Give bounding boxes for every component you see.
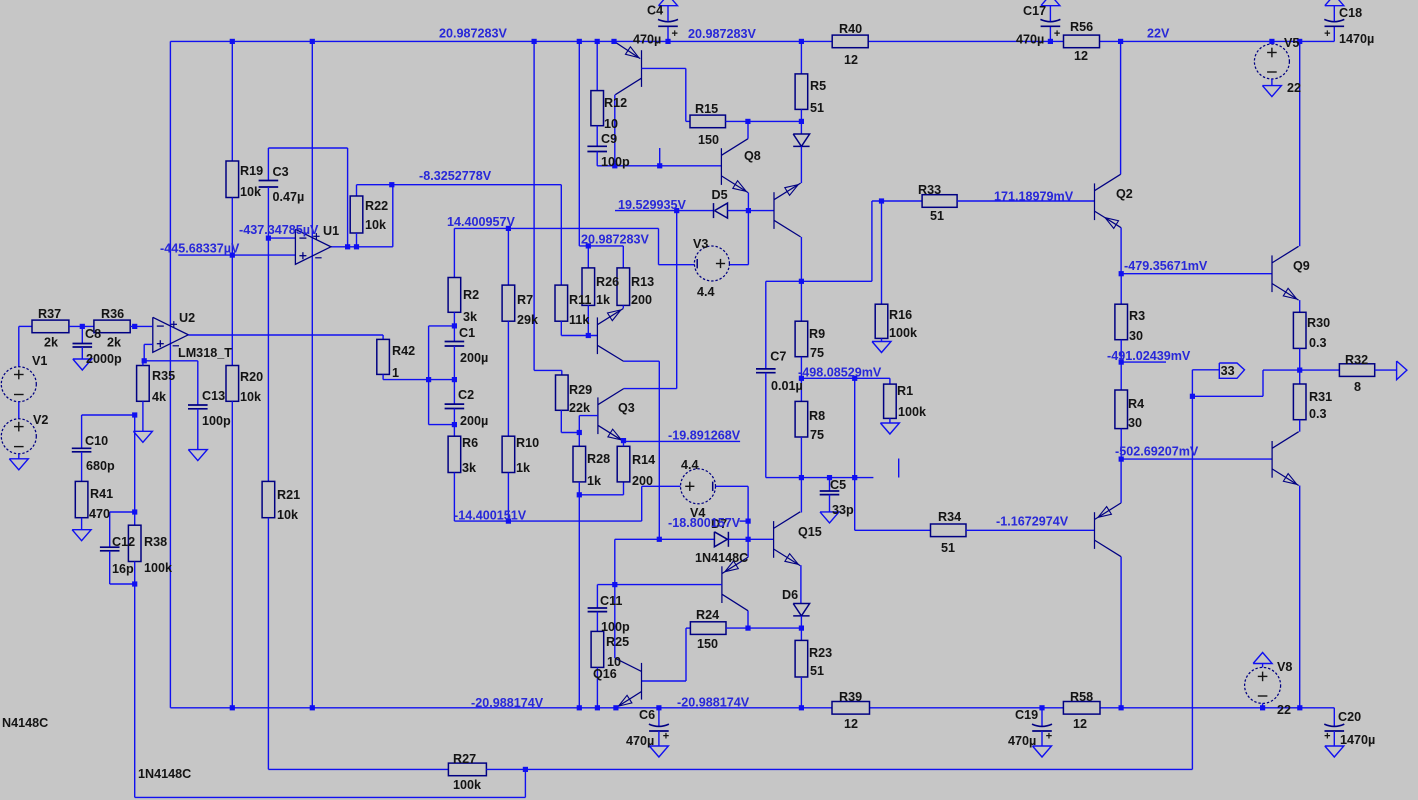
svg-text:D5: D5	[712, 188, 728, 202]
svg-text:16p: 16p	[112, 562, 134, 576]
svg-text:R16: R16	[889, 308, 912, 322]
svg-text:R20: R20	[240, 370, 263, 384]
svg-text:R19: R19	[240, 164, 263, 178]
svg-text:R5: R5	[810, 79, 826, 93]
svg-text:C10: C10	[85, 434, 108, 448]
svg-text:V3: V3	[693, 237, 708, 251]
svg-text:-479.35671mV: -479.35671mV	[1124, 259, 1208, 273]
svg-text:150: 150	[697, 637, 718, 651]
svg-text:R30: R30	[1307, 316, 1330, 330]
svg-text:V8: V8	[1277, 660, 1292, 674]
svg-text:R28: R28	[587, 452, 610, 466]
svg-text:200: 200	[631, 293, 652, 307]
svg-text:20.987283V: 20.987283V	[581, 233, 650, 247]
svg-text:-20.988174V: -20.988174V	[677, 695, 750, 709]
svg-text:+: +	[1046, 730, 1052, 742]
svg-text:12: 12	[1074, 49, 1088, 63]
svg-text:-491.02439mV: -491.02439mV	[1107, 349, 1191, 363]
svg-text:2000p: 2000p	[86, 352, 122, 366]
svg-text:R24: R24	[696, 608, 719, 622]
svg-text:C7: C7	[770, 349, 786, 363]
svg-text:51: 51	[930, 209, 944, 223]
svg-text:100k: 100k	[144, 561, 173, 575]
svg-text:100k: 100k	[889, 326, 918, 340]
svg-text:0.01µ: 0.01µ	[771, 379, 803, 393]
svg-text:R15: R15	[695, 102, 718, 116]
svg-text:+: +	[1324, 28, 1330, 40]
svg-text:4k: 4k	[152, 390, 167, 404]
svg-text:R23: R23	[809, 646, 832, 660]
svg-text:22: 22	[1277, 703, 1291, 717]
svg-text:1k: 1k	[596, 293, 611, 307]
svg-text:680p: 680p	[86, 459, 115, 473]
svg-text:Q16: Q16	[593, 667, 617, 681]
svg-text:2k: 2k	[107, 336, 122, 350]
svg-text:LM318_T: LM318_T	[178, 346, 232, 360]
svg-text:V1: V1	[32, 354, 47, 368]
svg-text:R33: R33	[918, 183, 941, 197]
svg-text:C6: C6	[639, 708, 655, 722]
svg-text:+: +	[1324, 730, 1330, 742]
svg-text:R41: R41	[90, 487, 113, 501]
svg-text:R2: R2	[463, 288, 479, 302]
svg-text:C2: C2	[458, 388, 474, 402]
svg-text:R1: R1	[897, 384, 913, 398]
svg-text:20.987283V: 20.987283V	[688, 27, 757, 41]
svg-text:Q15: Q15	[798, 525, 822, 539]
svg-text:R4: R4	[1128, 397, 1144, 411]
svg-text:20.987283V: 20.987283V	[439, 27, 508, 41]
svg-text:R6: R6	[462, 436, 478, 450]
svg-text:R34: R34	[938, 510, 961, 524]
svg-text:-19.891268V: -19.891268V	[668, 429, 741, 443]
svg-text:-502.69207mV: -502.69207mV	[1115, 445, 1199, 459]
svg-text:C5: C5	[830, 478, 846, 492]
svg-text:1k: 1k	[587, 474, 602, 488]
svg-text:75: 75	[810, 428, 824, 442]
svg-text:V2: V2	[33, 413, 48, 427]
svg-text:8: 8	[1354, 380, 1361, 394]
svg-text:2k: 2k	[44, 336, 59, 350]
svg-text:29k: 29k	[517, 313, 539, 327]
svg-text:51: 51	[810, 664, 824, 678]
svg-text:R12: R12	[604, 96, 627, 110]
svg-text:R42: R42	[392, 344, 415, 358]
svg-text:10k: 10k	[240, 390, 262, 404]
svg-text:100p: 100p	[601, 620, 630, 634]
svg-text:R21: R21	[277, 488, 300, 502]
svg-text:3k: 3k	[463, 310, 478, 324]
svg-text:R14: R14	[632, 453, 655, 467]
svg-text:+: +	[1054, 28, 1060, 40]
svg-text:30: 30	[1129, 329, 1143, 343]
svg-text:-437.34785µV: -437.34785µV	[239, 223, 319, 237]
svg-text:R36: R36	[101, 307, 124, 321]
svg-text:U2: U2	[179, 311, 195, 325]
svg-text:33: 33	[1221, 364, 1235, 378]
svg-text:R37: R37	[38, 307, 61, 321]
svg-text:C9: C9	[601, 132, 617, 146]
svg-text:Q8: Q8	[744, 149, 761, 163]
svg-text:R13: R13	[631, 275, 654, 289]
svg-text:R39: R39	[839, 690, 862, 704]
svg-text:1: 1	[392, 366, 399, 380]
svg-text:4.4: 4.4	[697, 285, 715, 299]
svg-text:470µ: 470µ	[626, 734, 654, 748]
svg-text:51: 51	[810, 101, 824, 115]
svg-text:1N4148C: 1N4148C	[695, 551, 748, 565]
svg-text:10k: 10k	[365, 218, 387, 232]
svg-text:0.3: 0.3	[1309, 336, 1327, 350]
svg-text:V5: V5	[1284, 36, 1299, 50]
svg-text:75: 75	[810, 346, 824, 360]
svg-text:30: 30	[1128, 416, 1142, 430]
svg-text:C4: C4	[647, 4, 663, 18]
svg-text:R58: R58	[1070, 690, 1093, 704]
svg-text:0.3: 0.3	[1309, 407, 1327, 421]
svg-text:R29: R29	[569, 383, 592, 397]
svg-text:-20.988174V: -20.988174V	[471, 696, 544, 710]
svg-text:4.4: 4.4	[681, 458, 699, 472]
svg-text:171.18979mV: 171.18979mV	[994, 189, 1074, 203]
svg-text:100p: 100p	[202, 414, 231, 428]
svg-text:C1: C1	[459, 326, 475, 340]
svg-text:R38: R38	[144, 535, 167, 549]
svg-text:+: +	[663, 730, 669, 742]
svg-text:14.400957V: 14.400957V	[447, 215, 516, 229]
svg-text:Q3: Q3	[618, 401, 635, 415]
svg-text:10: 10	[604, 117, 618, 131]
svg-text:C8: C8	[85, 327, 101, 341]
svg-text:C17: C17	[1023, 4, 1046, 18]
svg-text:C20: C20	[1338, 710, 1361, 724]
svg-text:3k: 3k	[462, 461, 477, 475]
svg-text:470µ: 470µ	[1008, 734, 1036, 748]
svg-text:R3: R3	[1129, 309, 1145, 323]
svg-text:22V: 22V	[1147, 27, 1170, 41]
svg-text:+: +	[672, 28, 678, 40]
svg-text:11k: 11k	[569, 313, 590, 327]
svg-text:U1: U1	[323, 224, 339, 238]
svg-text:-498.08529mV: -498.08529mV	[798, 366, 882, 380]
svg-text:10k: 10k	[240, 185, 262, 199]
svg-text:Q2: Q2	[1116, 187, 1133, 201]
svg-text:R25: R25	[606, 635, 629, 649]
svg-text:470µ: 470µ	[633, 33, 661, 47]
svg-text:1k: 1k	[516, 461, 531, 475]
svg-text:0.47µ: 0.47µ	[273, 190, 305, 204]
svg-text:C19: C19	[1015, 708, 1038, 722]
svg-text:R11: R11	[569, 293, 591, 307]
svg-text:12: 12	[844, 717, 858, 731]
svg-text:Q9: Q9	[1293, 259, 1310, 273]
svg-text:R10: R10	[516, 436, 539, 450]
svg-text:1470µ: 1470µ	[1339, 32, 1374, 46]
svg-text:100k: 100k	[898, 405, 927, 419]
svg-text:200µ: 200µ	[460, 414, 488, 428]
svg-text:R35: R35	[152, 369, 175, 383]
svg-text:R9: R9	[809, 327, 825, 341]
svg-text:C13: C13	[202, 389, 225, 403]
svg-text:22k: 22k	[569, 401, 591, 415]
svg-text:C3: C3	[273, 165, 289, 179]
svg-text:D6: D6	[782, 588, 798, 602]
svg-text:1N4148C: 1N4148C	[138, 767, 191, 781]
svg-text:-8.3252778V: -8.3252778V	[419, 169, 492, 183]
svg-text:-1.1672974V: -1.1672974V	[996, 515, 1069, 529]
svg-text:R56: R56	[1070, 20, 1093, 34]
svg-text:-445.68337µV: -445.68337µV	[160, 242, 240, 256]
svg-text:12: 12	[844, 53, 858, 67]
svg-text:33p: 33p	[832, 503, 854, 517]
svg-text:R8: R8	[809, 409, 825, 423]
svg-text:100k: 100k	[453, 778, 482, 792]
svg-text:19.529935V: 19.529935V	[618, 198, 687, 212]
svg-text:470: 470	[89, 507, 110, 521]
svg-text:12: 12	[1073, 717, 1087, 731]
svg-text:C18: C18	[1339, 6, 1362, 20]
svg-text:-14.400151V: -14.400151V	[454, 509, 527, 523]
svg-text:200µ: 200µ	[460, 351, 488, 365]
svg-text:C12: C12	[112, 535, 135, 549]
svg-text:100p: 100p	[601, 155, 630, 169]
svg-text:1470µ: 1470µ	[1340, 733, 1375, 747]
svg-text:51: 51	[941, 541, 955, 555]
svg-text:R32: R32	[1345, 353, 1368, 367]
svg-text:R22: R22	[365, 199, 388, 213]
svg-text:C11: C11	[600, 594, 622, 608]
svg-text:22: 22	[1287, 81, 1301, 95]
svg-text:N4148C: N4148C	[2, 716, 48, 730]
svg-text:150: 150	[698, 133, 719, 147]
svg-text:10k: 10k	[277, 508, 299, 522]
svg-text:200: 200	[632, 474, 653, 488]
svg-text:470µ: 470µ	[1016, 33, 1044, 47]
svg-text:R31: R31	[1309, 390, 1332, 404]
svg-text:-18.800157V: -18.800157V	[668, 516, 741, 530]
svg-text:R26: R26	[596, 275, 619, 289]
svg-text:R7: R7	[517, 293, 533, 307]
svg-text:R27: R27	[453, 752, 476, 766]
svg-text:R40: R40	[839, 22, 862, 36]
